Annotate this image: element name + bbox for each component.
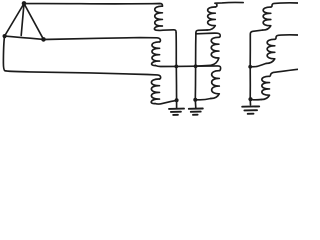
- wire L5sec bottom to vertical: [197, 64, 211, 67]
- coil L4 (unit2 top): [207, 7, 215, 30]
- node apex dot: [22, 1, 27, 6]
- node unit2 ground junction: [193, 98, 197, 102]
- node unit3 bus junction: [248, 65, 252, 69]
- antenna A1 (triangle): [3, 1, 46, 42]
- wire L5 bottom to ground junction: [196, 99, 210, 100]
- node right vertex dot: [41, 37, 46, 42]
- coil L8 (unit3 bottom): [261, 76, 269, 99]
- wire unit3 output to right edge into coil L8: [270, 69, 299, 76]
- wire unit2 secondary top branch: [196, 33, 220, 37]
- wire L7 tail to vertical junction: [251, 63, 266, 66]
- ground unit3: [242, 106, 259, 113]
- wire apex to left vertex: [5, 4, 24, 37]
- wire middle: antenna right vertex to coil L2: [44, 38, 161, 42]
- node unit2 bus junction: [194, 64, 198, 68]
- node unit1 ground junction: [175, 98, 179, 102]
- ground unit1: [169, 109, 184, 115]
- coil L2 (unit1 middle): [152, 42, 160, 66]
- wire unit2 antenna stub: [215, 2, 243, 7]
- wire apex to mid base: [21, 4, 24, 36]
- coil L3 (unit1 bottom): [151, 79, 159, 104]
- wire top: antenna apex to coil L1: [24, 4, 162, 7]
- node unit3 ground junction: [248, 97, 252, 101]
- coil L7 (unit3 middle): [266, 39, 275, 63]
- wire unit1 right vertical: [175, 33, 178, 108]
- wire L8 bottom to ground junction: [251, 99, 261, 101]
- wire apex to right vertex: [24, 4, 43, 40]
- wire unit3 left vertical: [249, 34, 251, 105]
- coil L6 (unit3 top): [263, 7, 271, 30]
- ground unit2: [189, 109, 203, 115]
- wire unit3 secondary lead to right edge: [275, 35, 298, 39]
- wire L3 bottom to ground junction: [155, 100, 177, 104]
- coil L5 (unit2 bottom): [211, 71, 220, 99]
- node unit1 bus junction: [174, 65, 178, 69]
- coil L1 (unit1 top): [154, 6, 162, 30]
- node left vertex dot: [3, 34, 7, 38]
- wire left lead down from antenna: [3, 36, 160, 79]
- coil L5sec (unit2 middle): [211, 37, 219, 65]
- wire L1 bottom to vertical: [158, 30, 176, 33]
- wire unit2 left vertical: [194, 33, 197, 108]
- wire unit3 antenna stub to right edge: [271, 3, 298, 7]
- circuit schematic: antenna with three coil-to-ground coupling units: [0, 0, 298, 120]
- wire base: [5, 36, 44, 39]
- wire bus y66: L2 bottom across unit1 and unit2 verticals to coil L5: [155, 66, 220, 71]
- wire L4 bottom to unit2 vertical: [196, 30, 207, 33]
- wire L6 bottom to unit3 vertical: [250, 30, 262, 34]
